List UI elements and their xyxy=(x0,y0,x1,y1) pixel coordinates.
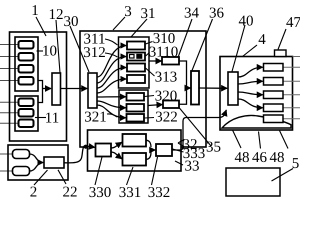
svg-text:5: 5 xyxy=(292,156,300,172)
svg-text:331: 331 xyxy=(119,185,142,200)
svg-text:1: 1 xyxy=(31,3,39,19)
svg-text:312: 312 xyxy=(83,45,106,61)
svg-text:40: 40 xyxy=(239,14,254,30)
svg-text:34: 34 xyxy=(184,6,200,22)
svg-text:10: 10 xyxy=(42,44,57,60)
svg-text:313: 313 xyxy=(155,70,178,86)
svg-text:332: 332 xyxy=(148,185,171,200)
svg-text:48: 48 xyxy=(235,150,250,166)
svg-text:4: 4 xyxy=(258,32,266,48)
svg-text:322: 322 xyxy=(155,110,178,126)
svg-text:12: 12 xyxy=(49,7,64,23)
svg-text:11: 11 xyxy=(45,111,59,127)
svg-text:320: 320 xyxy=(155,89,178,105)
svg-text:33: 33 xyxy=(185,159,200,175)
svg-text:321: 321 xyxy=(84,110,107,126)
svg-text:48: 48 xyxy=(270,150,285,166)
svg-text:36: 36 xyxy=(209,6,225,22)
svg-text:35: 35 xyxy=(206,140,221,156)
svg-text:22: 22 xyxy=(63,185,78,201)
svg-text:47: 47 xyxy=(286,15,300,31)
svg-text:3: 3 xyxy=(124,4,132,20)
svg-text:2: 2 xyxy=(30,185,38,201)
svg-text:30: 30 xyxy=(64,14,79,30)
svg-text:31: 31 xyxy=(141,6,156,22)
svg-text:3110: 3110 xyxy=(149,45,178,61)
svg-text:46: 46 xyxy=(252,150,268,166)
svg-text:330: 330 xyxy=(89,185,112,200)
